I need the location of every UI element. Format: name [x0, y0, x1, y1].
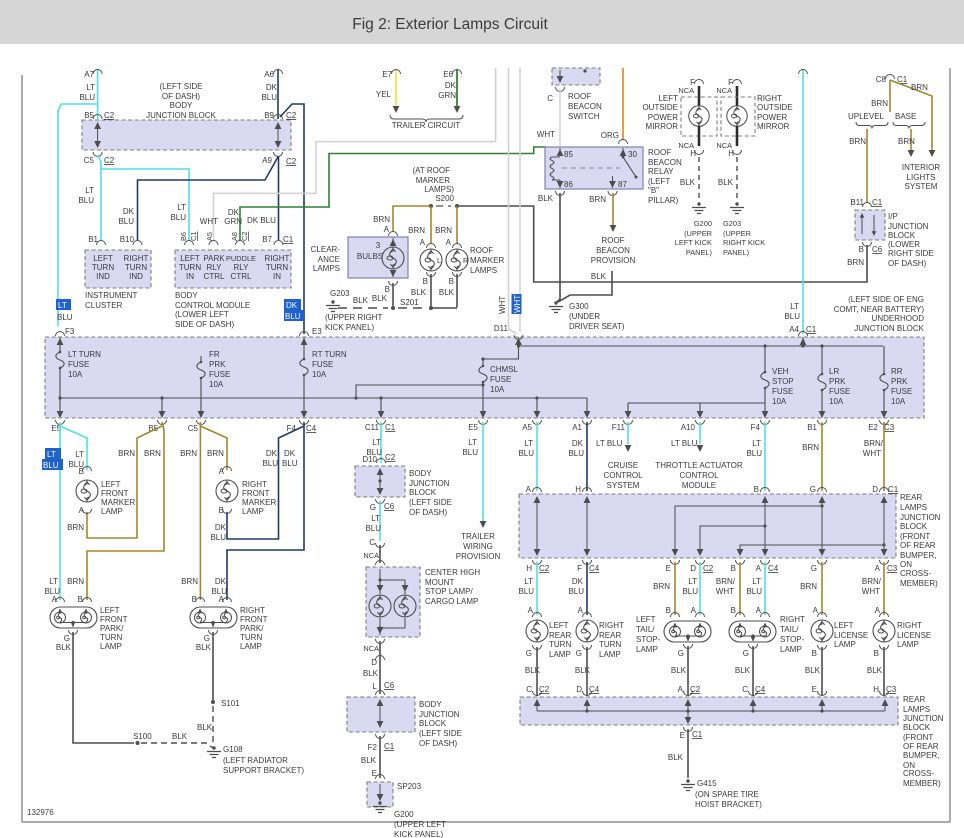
RLJB internal branch B to D	[700, 526, 765, 554]
svg-text:Fig 2: Exterior Lamps Circuit: Fig 2: Exterior Lamps Circuit	[352, 16, 548, 33]
ground G203 (S201 bus)	[326, 300, 340, 311]
svg-text:A: A	[384, 225, 390, 234]
svg-text:C1: C1	[872, 198, 883, 207]
wire WHT to D11 (right)	[519, 68, 521, 332]
svg-text:BEACON: BEACON	[648, 158, 682, 167]
svg-text:DK: DK	[215, 523, 227, 532]
pin below CHMSL	[376, 639, 385, 644]
instrument cluster box	[85, 250, 151, 288]
pin G C6	[376, 499, 385, 504]
svg-text:A8: A8	[230, 232, 239, 241]
svg-text:BLK: BLK	[718, 178, 734, 187]
pin G right park/turn	[209, 630, 218, 635]
svg-text:CARGO LAMP: CARGO LAMP	[425, 597, 478, 606]
svg-text:B6: B6	[179, 232, 188, 241]
svg-text:(ON SPARE TIRE: (ON SPARE TIRE	[695, 790, 759, 799]
svg-text:BLU: BLU	[78, 196, 94, 205]
svg-text:FRONT: FRONT	[101, 489, 129, 498]
svg-text:ANCE: ANCE	[318, 255, 340, 264]
svg-text:LIGHTS: LIGHTS	[907, 173, 936, 182]
svg-text:BRN: BRN	[67, 577, 84, 586]
svg-text:NCA: NCA	[678, 86, 694, 95]
svg-text:C2: C2	[286, 157, 297, 166]
svg-text:TURN: TURN	[266, 263, 288, 272]
svg-text:A: A	[420, 238, 426, 247]
svg-text:FUSE: FUSE	[772, 387, 793, 396]
svg-text:C4: C4	[589, 564, 600, 573]
svg-text:C2: C2	[286, 111, 297, 120]
wire BLK S101 to G108 (dashed)	[212, 706, 214, 744]
svg-text:BLU: BLU	[746, 449, 762, 458]
svg-text:G: G	[576, 649, 582, 658]
svg-text:RIGHT: RIGHT	[599, 621, 624, 630]
svg-text:I/P: I/P	[888, 212, 898, 221]
RLJB through wires	[537, 497, 884, 554]
wire DK BLU from A6 to B9	[277, 69, 279, 119]
wire BLK right marker to S201	[456, 274, 458, 308]
svg-text:LAMP: LAMP	[897, 640, 919, 649]
svg-text:B7: B7	[262, 235, 272, 244]
pin A right marker	[223, 467, 232, 472]
svg-text:FUSE: FUSE	[829, 387, 850, 396]
wire BLK right mirror to G203	[736, 157, 738, 202]
svg-text:BODY: BODY	[170, 101, 193, 110]
fuse RR PRK 10A	[883, 346, 885, 412]
svg-text:BLK: BLK	[56, 643, 72, 652]
svg-text:RIGHT: RIGHT	[124, 254, 149, 263]
svg-text:A: A	[875, 606, 881, 615]
svg-text:LT: LT	[372, 438, 381, 447]
svg-text:OF REAR: OF REAR	[903, 742, 939, 751]
wire LT BLU E5 to trailer provision	[482, 422, 484, 521]
pin C5	[93, 152, 102, 157]
wire LT BLU C5 to instrument cluster B1	[98, 155, 101, 240]
svg-text:BLK: BLK	[196, 643, 212, 652]
svg-text:LICENSE: LICENSE	[834, 631, 868, 640]
svg-text:BEACON: BEACON	[596, 246, 630, 255]
svg-text:BLU: BLU	[462, 448, 478, 457]
svg-text:C: C	[526, 685, 532, 694]
svg-text:LEFT: LEFT	[636, 615, 656, 624]
wire NCA to CHMSL lamp	[379, 545, 381, 563]
svg-text:BRN: BRN	[181, 577, 198, 586]
svg-text:BEACON: BEACON	[568, 102, 602, 111]
svg-text:OUTSIDE: OUTSIDE	[757, 103, 793, 112]
svg-text:INSTRUMENT: INSTRUMENT	[85, 291, 138, 300]
svg-text:C: C	[369, 538, 375, 547]
svg-text:JUNCTION BLOCK: JUNCTION BLOCK	[146, 111, 216, 120]
svg-text:NCA: NCA	[363, 644, 379, 653]
svg-text:C1: C1	[384, 742, 395, 751]
svg-text:WHT: WHT	[862, 587, 880, 596]
svg-text:H: H	[575, 485, 581, 494]
svg-text:LT: LT	[49, 577, 58, 586]
svg-text:3: 3	[376, 241, 381, 250]
svg-text:LAMP: LAMP	[599, 650, 621, 659]
svg-text:(LOWER: (LOWER	[888, 240, 920, 249]
svg-text:LT: LT	[85, 186, 94, 195]
svg-text:G: G	[678, 649, 684, 658]
svg-text:LEFT: LEFT	[658, 94, 678, 103]
wire BRN to left tail B	[674, 562, 676, 615]
svg-text:MIRROR: MIRROR	[646, 122, 679, 131]
brace base	[893, 122, 925, 129]
svg-text:BRN: BRN	[653, 582, 670, 591]
svg-text:LAMP: LAMP	[240, 642, 262, 651]
RLJB bottom pin labels	[533, 560, 542, 565]
wire DK BLU to right rear turn	[586, 562, 588, 615]
bus drops to exits	[162, 398, 587, 412]
svg-text:REAR: REAR	[900, 493, 922, 502]
svg-text:G: G	[204, 634, 210, 643]
svg-text:BRN: BRN	[871, 99, 888, 108]
svg-text:BLK: BLK	[525, 666, 541, 675]
body junction block 1 box	[355, 466, 405, 497]
svg-text:BLU: BLU	[118, 217, 134, 226]
svg-text:30: 30	[628, 150, 637, 159]
splice S200	[429, 204, 433, 208]
svg-text:SYSTEM: SYSTEM	[905, 182, 938, 191]
svg-text:NCA: NCA	[716, 86, 732, 95]
svg-text:SWITCH: SWITCH	[568, 112, 600, 121]
svg-text:UNDERHOOD: UNDERHOOD	[872, 314, 925, 323]
svg-text:BRN: BRN	[898, 137, 915, 146]
svg-text:TURN: TURN	[599, 640, 621, 649]
wire BLK left park/turn to S100	[73, 632, 134, 743]
svg-text:JUNCTION: JUNCTION	[888, 222, 929, 231]
svg-text:BLU: BLU	[282, 459, 298, 468]
svg-text:REAR: REAR	[549, 631, 571, 640]
svg-text:LEFT: LEFT	[834, 621, 854, 630]
svg-text:BRN: BRN	[800, 582, 817, 591]
splice S101	[211, 700, 215, 704]
ground G415	[681, 779, 695, 790]
svg-text:RT TURN: RT TURN	[312, 350, 347, 359]
CHMSL link to bus	[356, 385, 483, 398]
left tail/stop lamp	[671, 613, 680, 618]
svg-text:LT: LT	[752, 439, 761, 448]
svg-text:OF REAR: OF REAR	[900, 541, 936, 550]
ground G200 (left mirror)	[692, 202, 706, 213]
svg-text:BLK: BLK	[197, 723, 213, 732]
svg-text:(UPPER RIGHT: (UPPER RIGHT	[325, 313, 382, 322]
svg-text:BASE: BASE	[895, 112, 916, 121]
fuse VEH STOP 10A	[764, 346, 766, 412]
svg-text:ORG: ORG	[601, 131, 619, 140]
svg-text:B: B	[859, 245, 864, 254]
svg-text:LT: LT	[524, 439, 533, 448]
svg-text:SIDE OF DASH): SIDE OF DASH)	[175, 320, 234, 329]
svg-text:SYSTEM: SYSTEM	[607, 481, 640, 490]
svg-text:ROOF: ROOF	[470, 246, 493, 255]
pin B5	[93, 115, 102, 120]
svg-text:BLK: BLK	[353, 296, 369, 305]
left rear turn lamp	[533, 613, 542, 618]
roof beacon switch box	[552, 68, 600, 85]
wire BRN base to interior lights	[910, 129, 912, 150]
svg-text:BLK: BLK	[411, 288, 427, 297]
svg-text:E3: E3	[312, 327, 322, 336]
svg-text:B: B	[423, 277, 428, 286]
svg-text:TURN: TURN	[179, 263, 201, 272]
wire LT BLU A10 to throttle actuator	[699, 422, 701, 444]
svg-text:BLK: BLK	[361, 756, 377, 765]
wire DK GRN E6	[456, 69, 458, 106]
svg-text:LAMP: LAMP	[101, 507, 123, 516]
wire BLK left mirror to G200	[698, 157, 700, 202]
svg-text:A1: A1	[572, 423, 582, 432]
svg-text:OF DASH): OF DASH)	[409, 508, 448, 517]
svg-text:LT: LT	[177, 203, 186, 212]
svg-text:CTRL: CTRL	[204, 272, 225, 281]
svg-text:A5: A5	[205, 232, 214, 241]
fuse LT TURN 10A	[59, 337, 61, 412]
pin A5	[209, 241, 218, 246]
svg-text:CHMSL: CHMSL	[490, 365, 519, 374]
svg-text:BLU: BLU	[365, 524, 381, 533]
svg-text:UPLEVEL: UPLEVEL	[848, 112, 885, 121]
wire DK BLU A9 to B10	[138, 156, 279, 240]
pin A left marker	[83, 509, 92, 514]
svg-text:REAR: REAR	[903, 695, 925, 704]
wire ORG to relay 30	[622, 68, 624, 140]
pin B right marker	[453, 272, 462, 277]
pin B left marker	[427, 272, 436, 277]
wire BRN B5 to left park/turn B	[87, 422, 164, 600]
svg-text:B9: B9	[264, 111, 274, 120]
svg-text:(LEFT SIDE: (LEFT SIDE	[419, 729, 462, 738]
svg-text:LT: LT	[688, 577, 697, 586]
svg-text:BRN: BRN	[435, 226, 452, 235]
svg-text:OF DASH): OF DASH)	[888, 259, 927, 268]
svg-text:LICENSE: LICENSE	[897, 631, 931, 640]
svg-text:C3: C3	[886, 685, 897, 694]
svg-text:PROVISION: PROVISION	[591, 256, 636, 265]
svg-text:C3: C3	[884, 423, 895, 432]
svg-text:(LEFT SIDE: (LEFT SIDE	[160, 82, 203, 91]
wire BRN/WHT to right license A	[883, 562, 885, 615]
svg-text:BUMPER,: BUMPER,	[900, 551, 936, 560]
svg-text:LT BLU: LT BLU	[596, 439, 623, 448]
splice pack SP203	[367, 782, 393, 807]
svg-text:DK: DK	[284, 449, 296, 458]
svg-text:ROOF: ROOF	[601, 236, 624, 245]
svg-text:A9: A9	[262, 156, 272, 165]
svg-text:LAMP: LAMP	[549, 650, 571, 659]
svg-text:FRONT: FRONT	[100, 615, 128, 624]
svg-text:C3: C3	[887, 564, 898, 573]
svg-text:H: H	[690, 149, 696, 158]
svg-text:(UNDER: (UNDER	[569, 312, 600, 321]
svg-text:B: B	[874, 649, 879, 658]
wire LT BLU F4 to RLJB B	[764, 422, 766, 491]
svg-text:BLU: BLU	[57, 313, 73, 322]
wire BRN/WHT E2 to RLJB D	[883, 422, 885, 491]
svg-text:FUSE: FUSE	[891, 387, 912, 396]
svg-text:BODY: BODY	[409, 469, 432, 478]
svg-text:BLOCK: BLOCK	[903, 723, 931, 732]
left mirror feed wire	[698, 86, 701, 106]
svg-text:YEL: YEL	[376, 90, 392, 99]
svg-text:BLOCK: BLOCK	[900, 522, 928, 531]
svg-text:RIGHT: RIGHT	[897, 621, 922, 630]
svg-text:JUNCTION: JUNCTION	[419, 710, 460, 719]
svg-text:LT: LT	[790, 302, 799, 311]
svg-text:B10: B10	[120, 235, 135, 244]
svg-text:E7: E7	[382, 70, 392, 79]
wire BRN C8 to interior lights (base diag)	[890, 80, 932, 150]
right license lamp	[880, 613, 889, 618]
svg-text:10A: 10A	[312, 370, 327, 379]
svg-text:10A: 10A	[891, 397, 906, 406]
svg-text:WHT: WHT	[716, 587, 734, 596]
svg-text:LAMP: LAMP	[242, 507, 264, 516]
splice S100	[136, 741, 140, 745]
brace uplevel	[856, 122, 888, 129]
svg-text:BRN: BRN	[911, 83, 928, 92]
svg-text:MARKER: MARKER	[416, 176, 450, 185]
svg-text:"B": "B"	[648, 186, 659, 195]
svg-text:B: B	[731, 606, 736, 615]
svg-text:DK: DK	[266, 449, 278, 458]
svg-text:BLK: BLK	[363, 669, 379, 678]
relay contact	[622, 156, 625, 159]
left mirror bulb	[689, 106, 709, 126]
svg-text:10A: 10A	[68, 370, 83, 379]
svg-text:FUSE: FUSE	[209, 370, 230, 379]
svg-text:CROSS-: CROSS-	[900, 569, 931, 578]
svg-text:MOUNT: MOUNT	[425, 578, 454, 587]
svg-text:G: G	[526, 649, 532, 658]
svg-text:LEFT: LEFT	[101, 480, 121, 489]
svg-text:COMT, NEAR BATTERY): COMT, NEAR BATTERY)	[834, 305, 925, 314]
svg-text:B: B	[78, 595, 83, 604]
node A7 connector	[93, 70, 102, 75]
svg-text:MEMBER): MEMBER)	[903, 779, 941, 788]
svg-text:G200: G200	[394, 810, 414, 819]
svg-text:FR: FR	[209, 350, 220, 359]
wire LT BLU to right tail A	[764, 562, 766, 615]
wire BRN C5 to right park/turn B	[199, 422, 201, 600]
svg-text:BRN: BRN	[847, 258, 864, 267]
svg-text:C2: C2	[104, 111, 115, 120]
svg-text:B5: B5	[84, 111, 94, 120]
svg-text:F: F	[577, 564, 582, 573]
svg-text:C1: C1	[888, 485, 899, 494]
svg-text:D: D	[872, 485, 878, 494]
left front park/turn lamp	[50, 607, 97, 628]
svg-text:A: A	[79, 506, 85, 515]
svg-text:E2: E2	[868, 423, 878, 432]
wire BRN relay 87 roof beacon provision	[612, 193, 614, 225]
wire LT BLU BJB G to C	[379, 501, 381, 541]
svg-text:(LEFT SIDE OF ENG: (LEFT SIDE OF ENG	[848, 295, 924, 304]
svg-text:FRONT: FRONT	[240, 615, 268, 624]
svg-text:BODY: BODY	[419, 700, 442, 709]
wire LT BLU C11 to BJB D10	[380, 422, 382, 463]
svg-text:(UPPER: (UPPER	[684, 229, 712, 238]
svg-text:BLK: BLK	[575, 666, 591, 675]
svg-text:LT: LT	[524, 577, 533, 586]
internal bus D11 to CHMSL	[483, 337, 519, 359]
svg-text:BLU: BLU	[746, 587, 762, 596]
highlighted label DK BLU at E3	[284, 299, 301, 310]
svg-text:A5: A5	[522, 423, 532, 432]
svg-text:D10: D10	[362, 455, 377, 464]
svg-text:10A: 10A	[772, 397, 787, 406]
right roof marker lamp	[453, 244, 462, 249]
svg-text:PILLAR): PILLAR)	[648, 196, 679, 205]
entry A4 C1	[799, 332, 808, 337]
svg-text:A: A	[528, 606, 534, 615]
svg-text:OF DASH): OF DASH)	[419, 739, 458, 748]
svg-text:LT: LT	[75, 450, 84, 459]
wire BRN S200 to right roof marker	[456, 206, 458, 244]
svg-text:WHT: WHT	[513, 295, 522, 313]
svg-text:TURN: TURN	[92, 263, 114, 272]
rear lamps junction block 1 box	[519, 494, 896, 558]
svg-text:CLEAR-: CLEAR-	[311, 245, 341, 254]
svg-text:10A: 10A	[829, 397, 844, 406]
svg-text:WIRING: WIRING	[463, 542, 493, 551]
wire BLK 3bulbs to S201	[392, 283, 394, 306]
wire LT BLU to left tail A	[699, 562, 701, 615]
svg-text:R: R	[463, 256, 468, 265]
relay pin 87	[612, 176, 614, 188]
wire BRN to left license A	[821, 562, 823, 615]
svg-text:D11: D11	[494, 324, 509, 333]
pin E C1	[684, 727, 693, 732]
svg-text:10A: 10A	[490, 385, 505, 394]
svg-text:CLUSTER: CLUSTER	[85, 301, 123, 310]
svg-text:ON: ON	[900, 560, 912, 569]
svg-text:A: A	[219, 467, 225, 476]
svg-text:A: A	[219, 595, 225, 604]
svg-text:BLU: BLU	[262, 459, 278, 468]
svg-text:C2: C2	[539, 564, 550, 573]
svg-text:BRN: BRN	[180, 449, 197, 458]
svg-text:10A: 10A	[209, 380, 224, 389]
I/P junction block box	[855, 210, 885, 240]
main bus y398	[60, 397, 587, 399]
svg-text:C6: C6	[872, 245, 883, 254]
svg-text:H: H	[526, 564, 532, 573]
svg-text:MARKER: MARKER	[470, 256, 504, 265]
svg-text:SP203: SP203	[397, 782, 422, 791]
highlighted label LT BLU at F3	[56, 299, 71, 310]
ground G200 (SP203)	[373, 801, 387, 812]
svg-text:BLK: BLK	[680, 178, 696, 187]
svg-text:LT: LT	[47, 450, 56, 459]
svg-text:TURN: TURN	[549, 640, 571, 649]
pin B C6	[863, 242, 872, 247]
svg-text:H: H	[728, 149, 734, 158]
relay internal dashed link	[562, 167, 620, 169]
svg-text:FUSE: FUSE	[490, 375, 511, 384]
wire WHT frame top to BCM A5	[214, 68, 496, 240]
frame bottom edge	[22, 821, 950, 823]
svg-text:RR: RR	[891, 367, 903, 376]
svg-text:B11: B11	[850, 198, 864, 207]
svg-text:A7: A7	[84, 70, 94, 79]
fuse RT TURN 10A	[303, 337, 305, 412]
left mirror lower wire	[698, 126, 701, 146]
svg-text:LT: LT	[58, 301, 67, 310]
svg-text:C8: C8	[876, 75, 887, 84]
svg-text:BLK: BLK	[172, 732, 188, 741]
svg-text:DK: DK	[572, 439, 584, 448]
svg-text:BRN/: BRN/	[862, 577, 882, 586]
